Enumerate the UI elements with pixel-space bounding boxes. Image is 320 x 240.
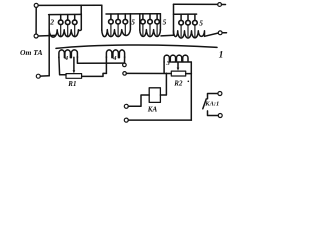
winding group 5b loop 1 xyxy=(141,14,146,36)
winding group 5c loop 1 xyxy=(179,14,184,36)
winding group 5c bottom scallops xyxy=(174,31,205,38)
winding group 2 loop 1 xyxy=(58,15,63,36)
wire stub right of X4 xyxy=(222,4,226,6)
winding group 5a top line continuing to group 5b xyxy=(106,13,160,15)
wire jumper down between group 2 and group 5a xyxy=(101,5,103,30)
winding group 2 loop 2 xyxy=(65,15,70,36)
resistor R1 body xyxy=(66,74,82,79)
wire bus 1 horizontal xyxy=(56,45,217,48)
winding group 5a loop 3 xyxy=(123,14,128,35)
relay KA coil box xyxy=(149,88,160,103)
svg-text:R1: R1 xyxy=(67,80,76,88)
terminal X5 right xyxy=(218,31,222,35)
winding group 5a bottom scallops xyxy=(102,14,131,37)
wire node to relay KA right lead xyxy=(160,73,166,95)
winding group 5a loop 2 xyxy=(116,14,121,35)
resistor R2 slider arrow xyxy=(177,62,180,70)
svg-text:2: 2 xyxy=(49,18,54,27)
terminal X1 top-left xyxy=(34,3,38,7)
wire left riser joining winding 2 and X3 xyxy=(48,15,50,76)
svg-text:КА:1: КА:1 xyxy=(204,101,219,108)
svg-text:1: 1 xyxy=(219,50,224,60)
winding group 5c loop 2 xyxy=(186,14,191,36)
winding group 2 riser to top bus xyxy=(80,5,82,14)
winding 4b right end down to socket xyxy=(124,57,126,63)
terminal X3 От ТА xyxy=(36,74,40,78)
socket b2 xyxy=(124,118,128,122)
resistor R1 slider arrow xyxy=(73,57,76,73)
wire X3 to riser xyxy=(40,75,49,77)
svg-text:От ТА: От ТА xyxy=(20,48,43,57)
contact KA:1 top lead xyxy=(208,94,218,99)
socket b1 xyxy=(124,104,128,108)
wire KA left lead to socket b1 xyxy=(128,95,149,106)
wire from X2 to winding 2 bottom xyxy=(38,34,55,37)
svg-text:4: 4 xyxy=(112,55,116,62)
winding group 5c top line xyxy=(174,13,197,15)
winding group 2 bottom scallops xyxy=(49,14,81,38)
winding group 5b left wall xyxy=(139,14,141,30)
resistor R2 body xyxy=(171,71,185,76)
wire left vertical X1 to X2 xyxy=(35,7,37,34)
svg-text:4: 4 xyxy=(64,55,68,62)
svg-text:3: 3 xyxy=(166,60,171,67)
winding group 5b bottom scallops xyxy=(140,30,161,37)
wire R1 right lead xyxy=(82,73,107,76)
terminal X6 xyxy=(218,92,222,96)
svg-text:R2: R2 xyxy=(173,80,183,88)
terminal X7 xyxy=(218,114,222,118)
socket a1 xyxy=(123,63,127,67)
svg-text:5: 5 xyxy=(199,18,203,27)
winding 3 humps xyxy=(164,55,191,62)
socket a2 xyxy=(123,72,127,76)
wire socket b2 to winding 3 right wall xyxy=(128,119,191,121)
wire R2 right lead xyxy=(186,73,192,75)
junction dot right of R2 xyxy=(188,81,190,83)
contact KA:1 bottom lead xyxy=(208,111,219,116)
wire group 5c to terminal X5 xyxy=(205,33,219,36)
winding 3 left wall xyxy=(163,62,165,73)
winding group 5c loop 3 xyxy=(193,14,198,36)
wire to terminal X4 xyxy=(174,3,218,5)
winding group 5b loop 2 xyxy=(148,14,153,36)
contact KA:1 blade xyxy=(203,99,207,109)
winding group 5a loop 1 xyxy=(109,14,114,35)
terminal X4 top-right xyxy=(218,3,222,7)
winding group 2 top line xyxy=(49,13,82,15)
wire top bus from X1 to jumper corner xyxy=(38,4,102,6)
terminal X2 left-middle xyxy=(34,34,38,38)
winding group 2 loop 3 xyxy=(72,15,77,36)
svg-text:5: 5 xyxy=(163,17,167,26)
wire group 5b bottom to right jumper xyxy=(161,34,174,37)
winding 4a humps xyxy=(59,50,78,58)
svg-text:КА: КА xyxy=(147,106,158,114)
winding 4b humps xyxy=(106,50,124,58)
winding 4b left wall xyxy=(105,57,107,74)
wire right jumper vertical xyxy=(173,4,175,35)
wire socket a2 to R2 left lead xyxy=(126,72,171,74)
winding 4a left wall down to R1 lead xyxy=(59,57,66,75)
winding 4a right wall to tap wire xyxy=(77,57,123,64)
wire stub right of X5 xyxy=(222,32,226,34)
winding group 5b right wall xyxy=(159,14,161,30)
svg-text:5: 5 xyxy=(131,18,135,27)
winding 3 right wall down to bottom wire xyxy=(190,62,192,120)
winding group 5b loop 3 xyxy=(155,14,160,36)
